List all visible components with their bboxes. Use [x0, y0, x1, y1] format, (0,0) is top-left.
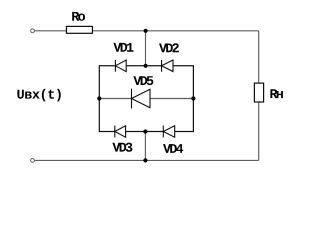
wire: right side from top corner down to RN — [258, 31, 260, 83]
wire: center tap bottom (bridge bottom rail to bottom wire) — [144, 132, 146, 161]
wire: RN down to bottom-right corner — [258, 102, 260, 160]
wire: top terminal to R0 — [34, 30, 66, 32]
resistor R0 — [66, 26, 92, 33]
label VD3 — [112, 143, 132, 152]
label R0 — [72, 12, 85, 21]
diode VD1 — [115, 60, 126, 72]
label VD5 — [133, 76, 153, 85]
node: junction top wire / center tap — [144, 29, 148, 33]
node: middle rail left on bridge frame — [97, 96, 101, 100]
wire: R0 to top-right corner — [93, 30, 259, 32]
wire: bottom from right corner to output terminal — [34, 159, 258, 161]
node: middle rail right on bridge frame — [191, 96, 195, 100]
resistor RN — [254, 83, 263, 102]
node: junction bottom wire / center tap — [143, 158, 147, 162]
label VD2 — [159, 43, 179, 52]
diode VD4 — [163, 126, 174, 138]
label RN — [270, 89, 283, 98]
node: junction bridge bottom rail / center tap — [143, 129, 147, 133]
terminal: input bottom — [31, 159, 35, 163]
label VD1 — [113, 43, 133, 52]
label VD4 — [163, 144, 183, 153]
wire: center tap top (top wire to bridge top rail) — [145, 31, 147, 66]
label UBX(t) input voltage — [17, 89, 60, 102]
diode VD2 — [162, 60, 173, 72]
diode VD5 — [132, 89, 151, 109]
node: junction bridge top rail / center tap — [144, 64, 148, 68]
diode VD3 — [115, 126, 126, 138]
terminal: input top — [31, 29, 35, 33]
bridge rectangle frame — [99, 66, 193, 132]
wire: bridge middle rail — [99, 98, 193, 100]
